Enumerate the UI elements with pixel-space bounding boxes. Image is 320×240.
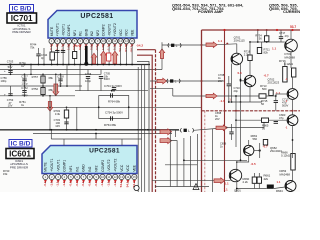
wire arrow to Q701 base	[226, 43, 237, 54]
value label C753	[7, 98, 14, 108]
resistor R665 56	[262, 118, 269, 131]
wire Q4 base	[266, 94, 287, 96]
svg-text:VCC: VCC	[119, 29, 123, 37]
svg-text:-1.1: -1.1	[113, 181, 117, 187]
svg-text:20p: 20p	[234, 89, 239, 93]
capacitor C753 electrolytic	[4, 93, 13, 97]
resistor R711 82k	[257, 48, 270, 55]
svg-text:IC B/D: IC B/D	[11, 141, 31, 148]
value label Q652 2SC2023	[270, 146, 282, 153]
svg-text:PRE DRIVER: PRE DRIVER	[12, 30, 31, 34]
wire verticals above IC601	[50, 107, 77, 130]
svg-text:-0.1: -0.1	[49, 45, 53, 51]
svg-text:500V: 500V	[104, 77, 110, 81]
svg-text:IN1: IN1	[79, 31, 83, 36]
wire dark red vertical x224.5	[224, 30, 226, 192]
junction dots C754	[98, 90, 130, 108]
wire horizontal y86	[0, 85, 82, 87]
svg-text:VCC: VCC	[125, 29, 129, 37]
svg-text:L: L	[175, 80, 177, 84]
svg-text:NF2: NF2	[96, 30, 100, 36]
pin labels IC701	[50, 23, 135, 36]
value label C656	[220, 141, 227, 148]
resistor tall box bottom right	[291, 154, 295, 171]
svg-text:-0.6: -0.6	[68, 181, 72, 187]
capacitor C704 3p 500V	[104, 84, 122, 90]
wire y102 row	[228, 102, 262, 161]
connector (B L) mid	[167, 79, 180, 84]
svg-text:+VOUT1: +VOUT1	[50, 159, 54, 172]
wire stubs under IC601 pins	[45, 180, 134, 184]
svg-text:-1.1: -1.1	[49, 181, 53, 187]
wire black corner x149	[137, 62, 149, 193]
resistor R661 box pair	[252, 177, 261, 183]
capacitor C703 electrolytic	[4, 69, 13, 73]
wire right edge vertical chain	[292, 110, 294, 158]
value label R744 75k	[30, 43, 37, 50]
value label R716 0.12k	[279, 59, 293, 66]
wire Q702 base from Q701	[240, 80, 245, 82]
svg-text:-0.6: -0.6	[87, 181, 91, 187]
svg-text:R764 68k: R764 68k	[108, 99, 121, 103]
wire dark red top bus y30	[202, 29, 301, 31]
value label C710 20p	[234, 86, 241, 93]
svg-text:-0.7: -0.7	[264, 74, 270, 78]
svg-text:1.1: 1.1	[225, 182, 230, 186]
svg-text:0.12kΩ: 0.12kΩ	[284, 62, 293, 66]
red up arrow mid	[159, 49, 164, 59]
svg-text:-0.1: -0.1	[81, 181, 85, 187]
svg-text:50V: 50V	[8, 65, 13, 69]
transistor top right	[285, 39, 298, 52]
pin numbers IC601 1-15	[43, 174, 137, 179]
red arrow at +VOUT2	[112, 51, 118, 64]
red voltage labels under IC701	[49, 45, 134, 52]
svg-text:-54.2: -54.2	[136, 43, 143, 47]
red pin arrows under IC701	[50, 44, 134, 47]
resistor R757 68k	[32, 75, 54, 83]
capacitor C706 100p	[85, 72, 92, 83]
transistor Q5 right edge	[287, 115, 298, 126]
wire Q701 collector to bus	[290, 30, 292, 39]
pin labels IC601	[44, 159, 137, 172]
svg-text:0.12kΩ: 0.12kΩ	[281, 154, 290, 158]
svg-text:+: +	[4, 93, 6, 97]
svg-text:54.1: 54.1	[126, 181, 130, 187]
connector pad circle bottom	[134, 185, 139, 190]
value label R660 2.2k	[243, 177, 250, 184]
wire Q4 collector	[292, 77, 294, 89]
svg-text:-0.1: -0.1	[43, 181, 47, 187]
red arrow 1.1	[206, 42, 217, 48]
value label D653 MA2468	[280, 169, 291, 176]
svg-text:IC601: IC601	[9, 149, 31, 158]
wire thick bus y129.8	[0, 129, 179, 131]
svg-text:MA2488: MA2488	[285, 55, 296, 59]
value label R743 15k	[3, 169, 10, 176]
node CURRENT list (right, clipped)	[269, 3, 303, 15]
capacitor C743	[36, 48, 40, 65]
svg-text:L: L	[176, 44, 178, 48]
pin numbers IC701 1-15	[49, 39, 135, 44]
value label C756 100p	[1, 76, 8, 83]
svg-text:15k: 15k	[3, 172, 8, 176]
svg-text:56: 56	[259, 36, 262, 40]
svg-text:47p: 47p	[285, 34, 290, 38]
svg-text:IN2: IN2	[90, 31, 94, 36]
svg-text:NF1: NF1	[69, 165, 73, 171]
resistor R715 56	[259, 94, 268, 106]
value label IC701 uPC2581H-S PRE DRIVER	[12, 23, 31, 34]
svg-text:-0.6: -0.6	[95, 45, 99, 51]
junction dots left field	[10, 64, 115, 109]
resistor R764 68k parallel box	[99, 93, 129, 107]
wire stub x44	[43, 48, 45, 65]
ground bar at GND pin 7	[84, 46, 88, 66]
wire horizontal bus y64.5	[0, 64, 150, 66]
svg-text:VCC: VCC	[126, 164, 130, 172]
wire Q4 emitter to dashed bus	[292, 99, 294, 110]
wire y81 connector row	[150, 80, 225, 82]
svg-text:3.3k: 3.3k	[55, 112, 61, 116]
capacitor small left	[227, 76, 231, 103]
svg-text:VEE: VEE	[130, 29, 134, 36]
wire left-edge stubs	[0, 0, 1, 1]
svg-text:CURRENT: CURRENT	[283, 9, 300, 14]
svg-text:R754 68k: R754 68k	[104, 123, 117, 127]
svg-text:-1.6: -1.6	[62, 181, 66, 187]
svg-text:+VOUT2: +VOUT2	[114, 159, 118, 172]
svg-text:53.7: 53.7	[290, 25, 296, 29]
svg-text:C704 3p 500V: C704 3p 500V	[104, 84, 122, 88]
resistor R663 560	[251, 134, 268, 145]
svg-text:20V: 20V	[215, 117, 220, 121]
transistor Q701 body	[231, 53, 243, 65]
red component box	[107, 53, 111, 61]
svg-text:54.1: 54.1	[119, 181, 123, 187]
wire horizontal y107.3	[0, 106, 202, 108]
svg-text:75k: 75k	[30, 46, 35, 50]
svg-text:68k: 68k	[49, 76, 54, 80]
capacitor C752 100p	[21, 86, 28, 97]
svg-text:1.1: 1.1	[277, 180, 281, 184]
value label R666 0.12k	[281, 151, 290, 158]
capacitor C758 3p 500V	[57, 75, 64, 86]
wire under up arrow	[161, 42, 163, 69]
svg-text:-0.7: -0.7	[263, 145, 269, 149]
svg-text:-1.1: -1.1	[220, 99, 226, 103]
wire Q701 emitter down	[285, 52, 291, 68]
wire pin drops IC701 to bus	[52, 44, 133, 65]
svg-text:560: 560	[262, 87, 267, 91]
op-amp IC701 reference box	[7, 13, 37, 23]
svg-text:0.5: 0.5	[238, 71, 243, 75]
wire Q701 legs	[231, 64, 242, 103]
connector triangle A	[193, 184, 199, 190]
svg-text:A: A	[195, 186, 197, 190]
red voltage labels under IC601	[43, 181, 136, 188]
resistor R718 box on collector	[248, 55, 252, 61]
red pin arrows under IC601	[44, 180, 136, 183]
svg-text:R757: R757	[32, 75, 39, 79]
wire bottom bus y180.7	[152, 180, 231, 182]
wire horizontal y95.8	[0, 95, 75, 97]
svg-text:500V: 500V	[282, 104, 288, 108]
resistor R714 56	[255, 34, 269, 42]
svg-text:+VOUT2: +VOUT2	[113, 23, 117, 36]
svg-text:VEE: VEE	[133, 164, 137, 171]
node IC B/D label (top)	[10, 5, 34, 13]
svg-text:IN2: IN2	[88, 166, 92, 171]
svg-text:-1.6: -1.6	[66, 45, 70, 51]
svg-text:-1.1: -1.1	[107, 181, 111, 187]
svg-text:+: +	[4, 69, 6, 73]
value label C658	[215, 111, 222, 121]
wire R714 bus to base wire	[266, 29, 268, 43]
op-amp IC601 body UPC2581	[42, 146, 137, 174]
svg-text:PRE DRIVER: PRE DRIVER	[10, 166, 29, 170]
resistor tall box right edge	[292, 68, 296, 77]
resistor R716 tall box	[283, 67, 287, 83]
node IC B/D label (bottom)	[9, 140, 32, 148]
wire y128 from connector	[176, 129, 217, 138]
svg-text:+VOUT1: +VOUT1	[56, 23, 60, 36]
transistor Q652	[244, 145, 254, 155]
wire horizontal bus y69.5	[0, 69, 162, 71]
junction dot red x201.5 y45	[201, 44, 203, 46]
resistor R705 (box under pin1)	[50, 52, 54, 60]
red arrow down mid-left	[53, 84, 59, 96]
svg-text:20V: 20V	[218, 79, 223, 83]
wire Q5 collector	[292, 111, 294, 115]
junction dots on bus	[10, 64, 133, 66]
wire vertical bundle between ICs	[138, 65, 145, 193]
svg-text:56: 56	[261, 102, 264, 106]
op-amp IC701 body UPC2581	[48, 11, 137, 39]
wire y127.5 onward	[226, 119, 266, 129]
svg-text:POWER AMP: POWER AMP	[198, 9, 223, 14]
svg-text:-1.6: -1.6	[100, 181, 104, 187]
wire staircase nest	[165, 129, 247, 193]
red arrow at pin 8	[91, 53, 96, 64]
svg-text:COMP2: COMP2	[102, 24, 106, 36]
svg-text:COMP1: COMP1	[67, 24, 71, 36]
value label C708	[218, 73, 225, 83]
junction dots y129.8	[49, 129, 149, 131]
wire y96 arrow row	[173, 95, 259, 97]
svg-text:82k: 82k	[264, 50, 269, 54]
red arrow down lower-left	[47, 102, 53, 112]
resistor R701 1k	[19, 61, 26, 68]
svg-text:NF1: NF1	[73, 30, 77, 36]
svg-text:68k: 68k	[49, 88, 54, 92]
svg-text:54.1: 54.1	[118, 45, 122, 51]
svg-text:UPC2581: UPC2581	[80, 13, 113, 20]
svg-text:GND: GND	[82, 164, 86, 172]
svg-text:-1.6: -1.6	[101, 45, 105, 51]
wire Q701 base row y42	[249, 41, 285, 47]
red tick labels right edge	[285, 77, 288, 130]
transistor Q602	[229, 169, 241, 181]
svg-text:2SA1115: 2SA1115	[234, 39, 246, 43]
svg-text:GND: GND	[84, 28, 88, 36]
svg-text:COMP2: COMP2	[101, 160, 105, 172]
value label D703 MA2488	[285, 52, 296, 59]
capacitor C703b 100 10V	[54, 118, 69, 128]
value label Q702 2SC2023	[268, 78, 280, 85]
red arrow y81	[157, 78, 167, 84]
transistor Q4 right edge	[287, 89, 298, 100]
svg-text:MA2468: MA2468	[280, 172, 291, 176]
wire dark red vertical pair second	[137, 49, 156, 51]
svg-text:-1.1: -1.1	[107, 45, 111, 51]
svg-text:R664: R664	[276, 189, 283, 192]
svg-text:560: 560	[253, 137, 258, 141]
value label R661 42k	[264, 174, 271, 181]
resistor R713 560	[260, 84, 273, 95]
wire Q702 emitter down	[249, 87, 251, 102]
svg-text:UPC2581: UPC2581	[89, 148, 120, 155]
red junction dots on top bus	[223, 29, 293, 112]
wire Q5 emitter down	[292, 126, 294, 140]
wire feed line above IC601 y139	[50, 129, 141, 146]
wire dark red corner from IC701 to vertical pair	[137, 55, 152, 192]
wire x236 lower	[229, 95, 237, 147]
red arrow at COMP2	[101, 51, 107, 64]
svg-text:2SC2023: 2SC2023	[268, 81, 280, 85]
svg-text:MUTE: MUTE	[50, 26, 54, 36]
svg-text:-0.6: -0.6	[94, 181, 98, 187]
svg-text:-0.6: -0.6	[75, 181, 79, 187]
red arrows into staircase	[160, 129, 172, 135]
resistor R703 3.3k	[54, 109, 69, 118]
svg-text:10V: 10V	[8, 104, 13, 108]
node POWER AMP transistor list	[172, 3, 243, 15]
wire horizontal y74.3	[0, 73, 101, 75]
svg-text:2.2k: 2.2k	[243, 180, 249, 184]
wire horizontal y90.7 right half	[75, 90, 148, 92]
resistor R751 1k	[19, 100, 26, 107]
svg-text:MUTE: MUTE	[44, 162, 48, 172]
transistor Q702 2SC2023	[244, 75, 255, 86]
svg-text:-1.1: -1.1	[56, 181, 60, 187]
svg-text:IC B/D: IC B/D	[12, 6, 32, 13]
svg-text:56: 56	[262, 127, 265, 131]
svg-text:VCC: VCC	[120, 164, 124, 172]
wire verticals left field	[11, 65, 68, 108]
wire C713	[275, 95, 277, 111]
wire bottom y186.5	[155, 186, 209, 188]
svg-text:1.1: 1.1	[224, 188, 229, 192]
svg-text:Q601: Q601	[234, 189, 241, 193]
svg-text:42k: 42k	[264, 177, 269, 181]
capacitor C741	[55, 51, 59, 53]
wire y133.5	[33, 133, 172, 135]
svg-text:NF2: NF2	[94, 165, 98, 171]
capacitor C757 100p	[21, 75, 28, 86]
svg-text:100p: 100p	[1, 79, 7, 83]
svg-text:54.1: 54.1	[124, 45, 128, 51]
wire C717	[280, 30, 282, 42]
capacitor C713 47p 500V	[274, 98, 289, 108]
wire Q5 base	[235, 119, 287, 121]
svg-text:1.1: 1.1	[272, 47, 277, 51]
svg-text:-VOUT2: -VOUT2	[107, 24, 111, 36]
svg-text:-VOUT1: -VOUT1	[56, 159, 60, 171]
connector (H L) top	[168, 43, 181, 48]
wire verticals mid field	[80, 65, 114, 91]
svg-text:-VOUT1: -VOUT1	[61, 24, 65, 36]
wire dark red vertical x201	[201, 30, 203, 192]
svg-text:10V: 10V	[55, 124, 60, 128]
svg-text:-54.2: -54.2	[130, 45, 134, 52]
resistor R752 68k	[32, 87, 54, 95]
svg-text:R752: R752	[32, 87, 39, 91]
value label R718 2.2k	[244, 50, 251, 57]
svg-text:C754 3p 500V: C754 3p 500V	[105, 110, 123, 114]
resistor R706	[73, 52, 77, 59]
diode on bottom wire	[267, 185, 274, 189]
wire Q652 connections	[236, 140, 249, 169]
wire dark red vertical x204.8 dashed	[204, 111, 206, 192]
value label C703 47 50V	[7, 60, 14, 70]
red arrow y96	[206, 93, 217, 99]
red arrow y127.5	[216, 125, 227, 131]
connector (B L) low	[180, 128, 193, 133]
capacitor C754 3p 500V box	[99, 107, 129, 120]
svg-text:-0.6: -0.6	[89, 45, 93, 51]
capacitor C705	[99, 72, 111, 82]
wire Q702 collector up	[249, 42, 251, 75]
op-amp IC601 reference box	[6, 149, 34, 159]
svg-text:-0.5: -0.5	[251, 162, 257, 166]
svg-text:47p: 47p	[279, 116, 284, 120]
value label IC601 uPC2581H-S PRE DRIVER	[10, 159, 29, 170]
svg-text:IC701: IC701	[11, 14, 33, 23]
wire y45 connector row	[162, 44, 237, 45]
capacitor C717	[279, 31, 290, 39]
value label Q701 2SA1115	[234, 35, 246, 42]
capacitor C742	[61, 51, 65, 53]
svg-text:1.1: 1.1	[218, 39, 223, 43]
wire staircase vertical x172	[150, 88, 173, 96]
wire bottom right links	[236, 170, 293, 192]
value label C744	[41, 53, 48, 60]
svg-text:L: L	[188, 129, 190, 133]
capacitor C663	[274, 113, 286, 123]
svg-text:-VOUT2: -VOUT2	[107, 159, 111, 171]
wire dark red dashed bus y110.8	[202, 110, 301, 112]
wire Q652 base dot	[254, 143, 261, 158]
wire x257.8 bus drop	[257, 29, 259, 43]
svg-text:IN1: IN1	[75, 166, 79, 171]
svg-text:COMP1: COMP1	[63, 160, 67, 172]
svg-text:-1.1: -1.1	[112, 45, 116, 51]
red arrow bottom 1.1	[214, 178, 225, 184]
transistor Q8 bottom right	[285, 181, 296, 192]
svg-text:-57.6: -57.6	[75, 44, 82, 48]
